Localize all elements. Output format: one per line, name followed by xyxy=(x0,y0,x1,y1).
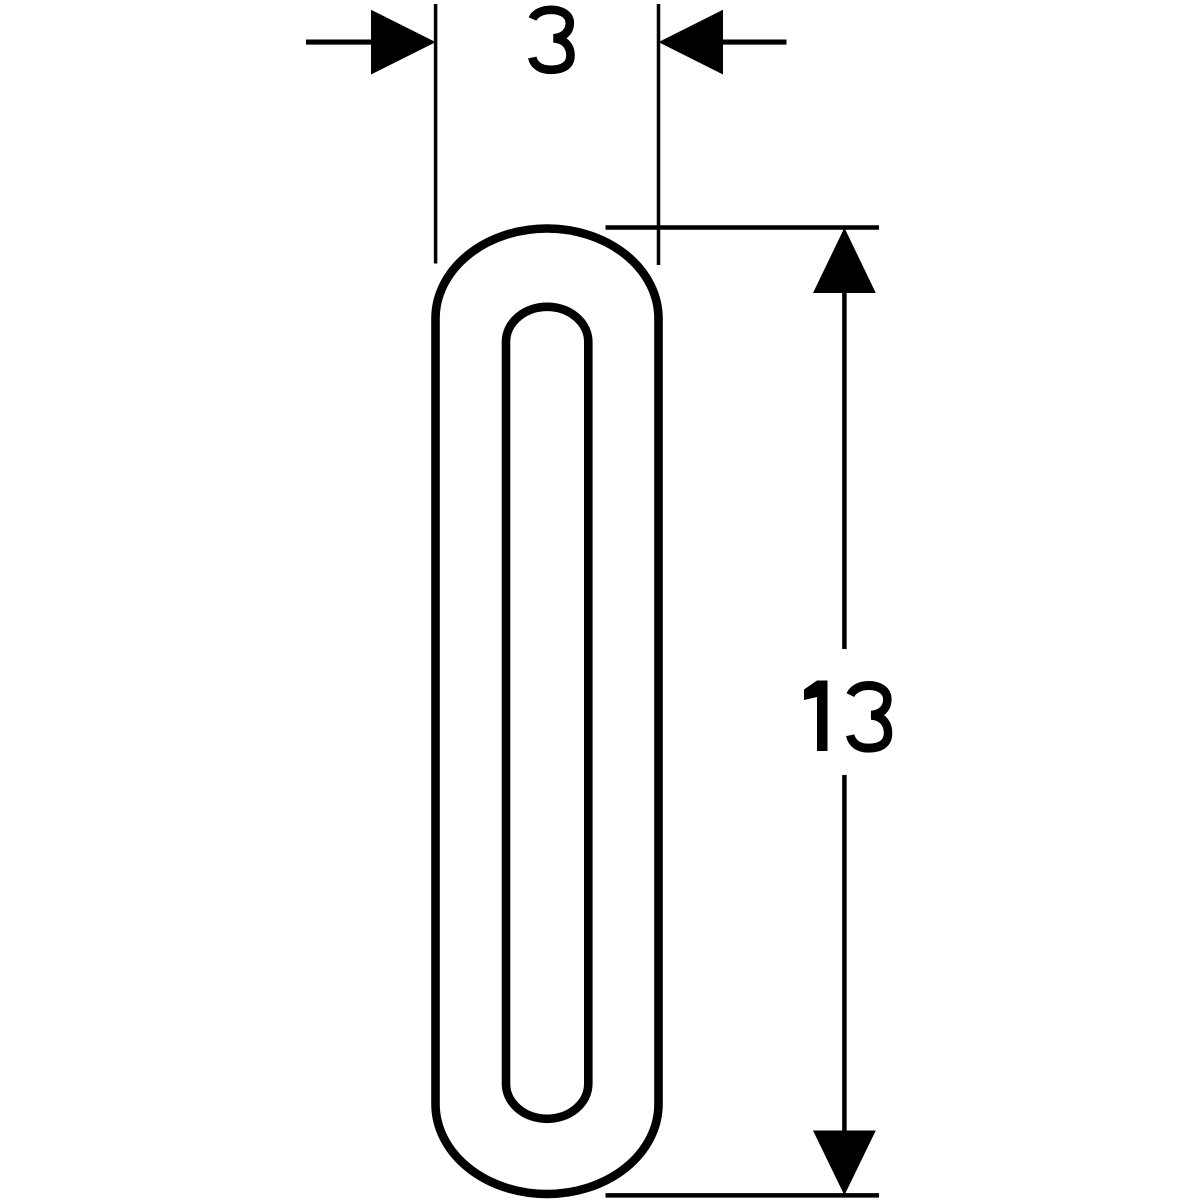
dim 3: left arrow leader xyxy=(306,40,372,45)
outer profile capsule xyxy=(436,229,659,1195)
inner slot capsule xyxy=(506,307,588,1119)
dim 13: value label "3" xyxy=(850,685,888,748)
dim 3: left extension line xyxy=(434,4,438,264)
dim 13: dimension line lower segment xyxy=(842,775,847,1131)
dim 3: right extension line xyxy=(657,4,661,265)
dim 13: bottom extension line xyxy=(606,1193,880,1198)
dim 3: value label "3" xyxy=(532,10,570,70)
dim 13: value label "1" xyxy=(804,681,828,752)
dim 13: top arrowhead xyxy=(813,228,876,293)
dim 3: right arrow leader xyxy=(723,40,787,45)
dim 3: right arrowhead xyxy=(659,10,724,75)
dim 3: left arrowhead xyxy=(371,10,436,75)
dim 13: bottom arrowhead xyxy=(813,1131,876,1196)
dim 13: dimension line upper segment xyxy=(842,291,847,649)
dim 13: top extension line xyxy=(606,225,880,230)
